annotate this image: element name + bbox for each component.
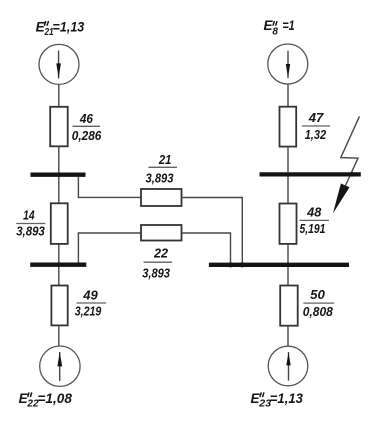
svg-text:3,893: 3,893 [16, 224, 45, 239]
svg-text:5,191: 5,191 [300, 221, 326, 236]
svg-text:48: 48 [306, 205, 322, 220]
svg-text:3,893: 3,893 [142, 266, 170, 281]
svg-text:21: 21 [158, 152, 171, 167]
svg-text:22: 22 [153, 245, 169, 260]
svg-text:49: 49 [82, 287, 98, 302]
svg-text:0,286: 0,286 [72, 128, 102, 143]
svg-text:0,808: 0,808 [303, 304, 334, 319]
svg-text:50: 50 [310, 287, 325, 302]
svg-text:46: 46 [79, 111, 93, 126]
svg-text:14: 14 [23, 208, 35, 223]
svg-text:47: 47 [308, 110, 324, 125]
svg-text:1,32: 1,32 [305, 127, 327, 142]
svg-text:3,219: 3,219 [75, 304, 102, 319]
svg-text:3,893: 3,893 [146, 171, 175, 186]
